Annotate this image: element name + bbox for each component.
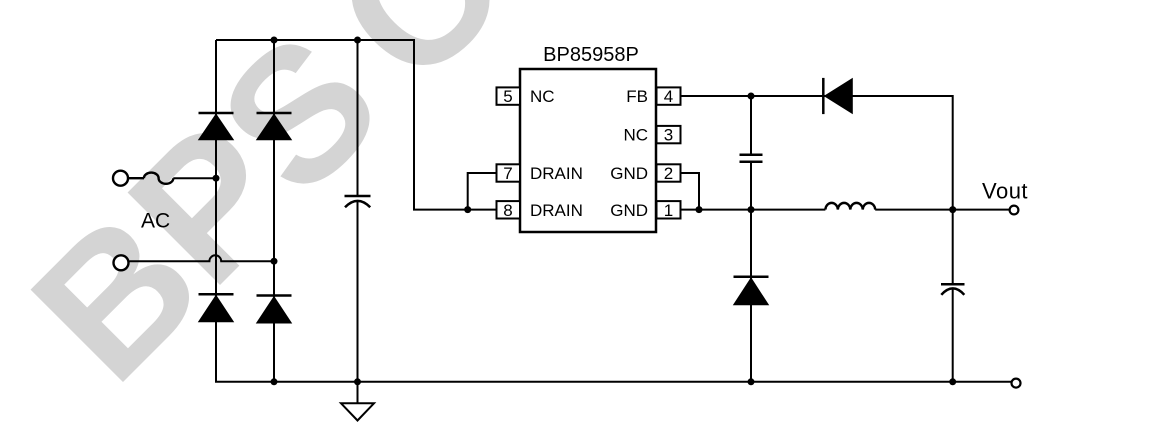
pin 5 box <box>497 87 521 104</box>
junction: pin7/pin8 drain <box>464 206 471 213</box>
svg-text:FB: FB <box>626 87 648 106</box>
wire: C2 column upper <box>750 96 752 154</box>
junction: top rail / column B <box>271 37 278 44</box>
diode D1 bridge top-left <box>199 113 234 140</box>
junction: bottom rail / column C <box>354 378 361 385</box>
wire: D6 column (output line to bottom rail) <box>750 210 752 382</box>
wire: pin 1 output line to inductor <box>681 209 826 211</box>
junction: top rail / column C <box>354 37 361 44</box>
junction: bottom rail / D6 column <box>748 378 755 385</box>
svg-text:AC: AC <box>141 210 170 233</box>
wire: C3 to bottom rail <box>952 289 954 382</box>
pin 8 box <box>497 201 521 218</box>
junction: pin1/pin2 <box>696 206 703 213</box>
wire: AC line 2 with crossover hop <box>130 255 275 261</box>
svg-text:3: 3 <box>664 126 673 145</box>
capacitor C1 bulk <box>345 196 371 207</box>
wire: column C vertical upper <box>357 40 359 196</box>
capacitor C3 output <box>941 284 965 295</box>
diode D5 (horizontal, cathode left) <box>823 78 852 114</box>
svg-text:4: 4 <box>664 87 673 106</box>
wire: pin 7 to drain net <box>468 173 497 210</box>
junction: FB / C2 column <box>748 93 755 100</box>
svg-text:DRAIN: DRAIN <box>530 164 583 183</box>
terminal: AC top <box>113 171 128 186</box>
IC U1 BP85958P body <box>520 69 656 232</box>
junction: bottom rail / right column <box>949 378 956 385</box>
svg-text:GND: GND <box>610 164 648 183</box>
svg-text:5: 5 <box>503 87 512 106</box>
svg-text:BP85958P: BP85958P <box>543 44 639 66</box>
fuse squiggle on AC line 1 <box>144 173 173 184</box>
pin 7 box <box>497 164 521 181</box>
terminal: bottom right <box>1012 379 1021 388</box>
wire: right column from diode to output line <box>852 96 952 210</box>
wire: fuse to column A <box>173 177 216 179</box>
svg-text:GND: GND <box>610 201 648 220</box>
wire: AC line 1 terminal to fuse <box>128 177 144 179</box>
diode D6 freewheeling <box>734 277 769 305</box>
wire: FB row from pin 4 <box>681 95 953 97</box>
wire: inductor to Vout terminal <box>875 209 1010 211</box>
pin 1 box <box>657 201 681 218</box>
ground stub <box>357 382 359 404</box>
inductor L1 <box>825 203 875 210</box>
terminal: Vout <box>1010 206 1019 215</box>
pin 3 box <box>657 126 681 143</box>
junction: output line / right column <box>949 206 956 213</box>
svg-text:Vout: Vout <box>982 179 1028 204</box>
capacitor C2 <box>740 155 763 162</box>
wire: column C vertical lower <box>357 202 359 382</box>
wire: C2 column lower to output line <box>750 162 752 210</box>
svg-text:1: 1 <box>664 201 673 220</box>
svg-text:2: 2 <box>664 164 673 183</box>
svg-text:DRAIN: DRAIN <box>530 201 583 220</box>
junction: output line / C2-D6 column <box>748 206 755 213</box>
junction: bottom rail / column B <box>271 378 278 385</box>
diode D2 bridge top-right <box>257 113 292 140</box>
diode D4 bridge bottom-right <box>257 296 292 324</box>
wire: top rail to drain corner down to pin 8 <box>216 40 497 210</box>
junction: AC line1 / column A <box>213 175 220 182</box>
pin 4 box <box>657 87 681 104</box>
diode D3 bridge bottom-left <box>199 294 234 322</box>
wire: bridge column A vertical + bottom rail <box>216 40 1011 382</box>
terminal: AC bottom <box>114 255 129 270</box>
svg-text:NC: NC <box>530 87 555 106</box>
wire: right column to output cap <box>952 210 954 284</box>
pin 2 box <box>657 164 681 181</box>
wire: bridge column B vertical <box>273 40 275 382</box>
ground symbol <box>341 403 374 420</box>
svg-text:8: 8 <box>503 201 512 220</box>
svg-text:7: 7 <box>503 164 512 183</box>
svg-text:NC: NC <box>623 126 648 145</box>
wire: pin 2 to gnd net <box>681 173 700 210</box>
junction: AC line2 / column B <box>271 258 278 265</box>
